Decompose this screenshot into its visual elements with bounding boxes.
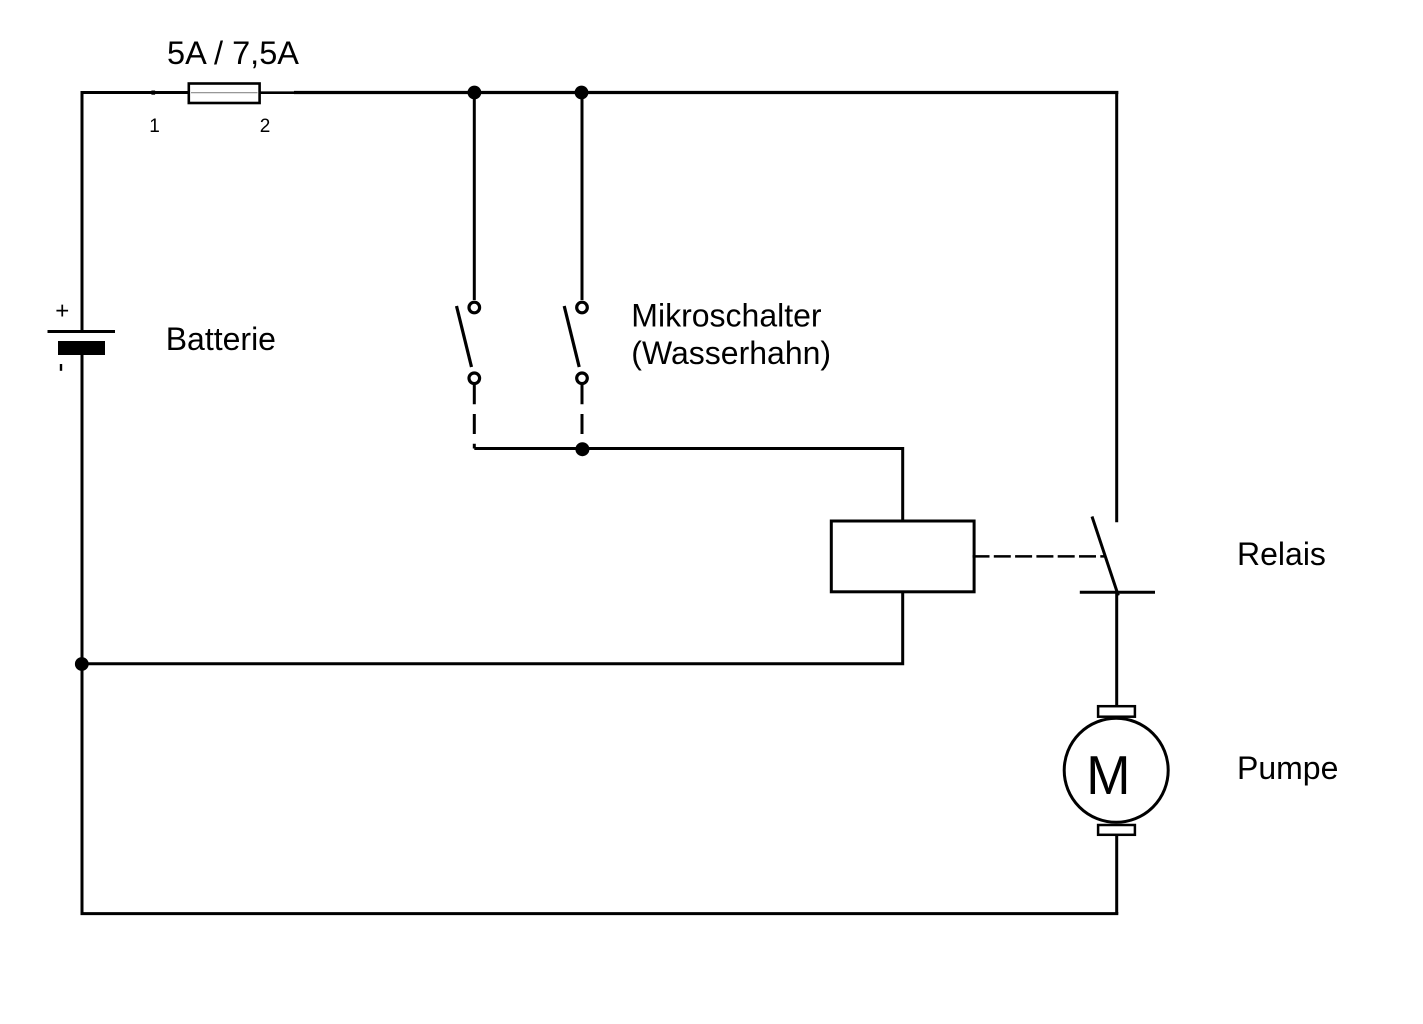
wire: bottom rail to motor bottom	[81, 912, 1119, 915]
svg-text:Relais: Relais	[1237, 536, 1326, 572]
fuse pin 1 terminal nub	[151, 91, 155, 95]
relay contact (normally open)	[1080, 517, 1155, 596]
label: Relais	[1237, 536, 1326, 572]
label: Batterie	[166, 321, 276, 357]
wire: switches common to relay coil top	[474, 449, 902, 522]
svg-text:2: 2	[260, 116, 271, 137]
dashed actuation link: coil to contact	[973, 555, 1106, 558]
label: Pumpe	[1237, 750, 1338, 786]
wire: dashed lead below switch S2	[581, 384, 584, 448]
wire: battery negative down left rail to bottom rail	[81, 355, 84, 914]
svg-text:M: M	[1086, 745, 1130, 806]
node: junction switch S2 / common wire	[575, 442, 589, 456]
motor M1 (pump)	[1064, 706, 1168, 835]
wire: motor bottom terminal to bottom rail	[1115, 835, 1118, 914]
svg-text:5A / 7,5A: 5A / 7,5A	[167, 35, 299, 71]
label: fuse pin 1	[149, 116, 160, 137]
switch S1 (microswitch, open)	[457, 302, 480, 383]
fuse F1 5A/7,5A	[189, 84, 260, 104]
wire: drop from top bus to switch S2	[581, 93, 584, 301]
wire: top-left corner to fuse pin 1	[81, 91, 190, 94]
wire: relay contact to motor top terminal	[1115, 592, 1118, 706]
wire: top bus right corner down to relay contact	[1115, 91, 1118, 522]
svg-text:Mikroschalter: Mikroschalter	[631, 298, 822, 334]
svg-text:Batterie: Batterie	[166, 321, 276, 357]
label: fuse value 5A / 7,5A	[167, 35, 299, 71]
svg-text:(Wasserhahn): (Wasserhahn)	[631, 335, 831, 371]
node: junction top wire / switch S1	[468, 86, 482, 100]
svg-text:+: +	[55, 298, 69, 325]
svg-text:Pumpe: Pumpe	[1237, 750, 1338, 786]
wire: battery positive up to top-left corner	[81, 93, 84, 332]
switch S2 (microswitch, open)	[564, 302, 587, 383]
wire: drop from top bus to switch S1	[473, 93, 476, 301]
label: Mikroschalter (Wasserhahn)	[631, 298, 831, 372]
wire: relay coil bottom to battery negative rail	[82, 592, 903, 664]
node: junction left rail / coil return	[75, 657, 89, 671]
wire: top bus from fuse pin 2 to right corner	[259, 91, 1118, 94]
relay coil K1	[831, 521, 974, 592]
battery B1	[48, 298, 116, 371]
label: fuse pin 2	[260, 116, 271, 137]
node: junction top wire / switch S2	[575, 86, 589, 100]
svg-text:1: 1	[149, 116, 160, 137]
wire: dashed lead below switch S1	[473, 384, 476, 448]
